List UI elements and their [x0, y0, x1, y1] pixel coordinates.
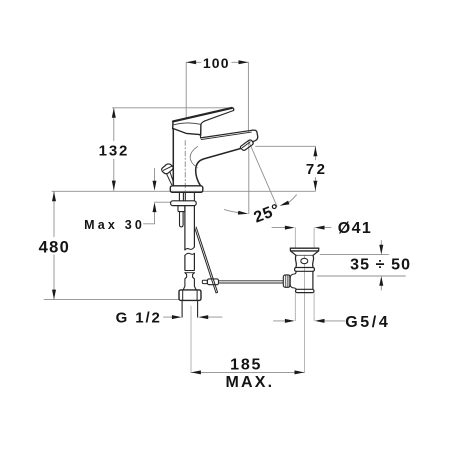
svg-text:100: 100: [203, 55, 230, 71]
faucet spout end face: [252, 130, 257, 142]
drain ball joint nut: [283, 275, 290, 287]
dimension G 1/2 arrows: [172, 315, 208, 319]
dimension G5/4 arrows: [285, 319, 325, 323]
svg-text:72: 72: [306, 161, 328, 178]
dimension 35-50 arrows: [379, 245, 383, 286]
ball joint facets: [285, 276, 289, 287]
svg-text:Ø41: Ø41: [338, 220, 372, 237]
shank o-ring grooves: [185, 271, 195, 273]
shank break symbol: [185, 247, 195, 256]
svg-text:G 1/2: G 1/2: [116, 309, 162, 326]
drain overflow hole: [301, 258, 308, 263]
dimension 72 extension line: [256, 145, 316, 147]
ball joint neck: [290, 272, 296, 289]
dimension Max 30 lower arrow: [154, 211, 156, 224]
dimension D41 extension lines: [295, 228, 314, 248]
dimension 132 extension line: [113, 107, 234, 109]
faucet lever underside: [201, 111, 234, 125]
svg-text:25°: 25°: [252, 201, 283, 226]
dimension 185 MAX arrows: [191, 370, 304, 374]
horizontal linkage rod: [219, 281, 284, 283]
lift rod above washer: [179, 193, 183, 201]
drain coupling ring: [295, 268, 315, 272]
drain lower body: [296, 271, 313, 289]
hex nut facets: [183, 290, 197, 301]
svg-text:480: 480: [39, 238, 70, 256]
svg-text:G5/4: G5/4: [345, 314, 390, 331]
faucet pull-rod stem: [167, 173, 174, 185]
dimension 100 extension lines: [186, 62, 248, 131]
faucet handle block: [173, 121, 201, 135]
faucet aerator inner line: [242, 142, 250, 148]
supply shank upper part: [185, 206, 195, 250]
dimension 72 arrows: [313, 147, 317, 191]
dimension G5/4 line: [274, 320, 346, 322]
supply hex nut G1/2: [179, 290, 201, 301]
drain bottom cap: [296, 289, 315, 292]
dimension 132 arrows: [112, 108, 116, 190]
angle 25 right arc arrow: [288, 195, 296, 203]
linkage pin: [202, 280, 207, 283]
mounting washer: [171, 201, 197, 206]
angle 25 vertical ray: [248, 142, 250, 214]
drain flange sides: [290, 248, 318, 255]
faucet centre line below deck: [190, 306, 192, 372]
angle 25 tilted ray: [249, 142, 277, 206]
faucet spout top edge inner line: [201, 132, 251, 140]
supply shank lower part: [185, 253, 195, 270]
faucet body sculpt curve: [190, 146, 197, 167]
dimension 185 MAX line: [191, 371, 304, 373]
dimension 480 arrows: [52, 192, 56, 300]
drain flange top: [290, 248, 318, 251]
shank neck: [183, 273, 196, 290]
faucet spout underside: [196, 148, 241, 185]
svg-text:Max 30: Max 30: [84, 218, 145, 232]
svg-text:35 ÷ 50: 35 ÷ 50: [350, 256, 411, 273]
supply shank above washer: [185, 193, 194, 201]
dimension Max 30 leader: [144, 223, 155, 225]
faucet body centre line: [184, 141, 186, 191]
faucet pull-rod knob inner line: [163, 166, 172, 170]
drain upper body: [295, 255, 313, 267]
faucet handle crease: [173, 123, 200, 125]
dimension 35-50 extension lines: [317, 255, 405, 276]
dimension Max 30 upper arrow: [154, 169, 156, 182]
angle 25 left arc arrow: [224, 210, 238, 213]
svg-text:185: 185: [230, 357, 262, 374]
dimension 100 arrows: [186, 60, 248, 64]
dimension D41 line: [272, 227, 331, 229]
deck underside line: [155, 201, 171, 203]
dimension 100 line: [186, 61, 248, 63]
faucet lever tip: [232, 108, 234, 111]
dimension 35-50 line: [380, 241, 382, 291]
deck line: [52, 190, 315, 192]
pop-up rod diagonal: [195, 227, 218, 293]
faucet base plate: [170, 186, 203, 193]
hose end reference line: [44, 299, 179, 301]
faucet body left edge: [172, 128, 175, 185]
lift rod lower end: [180, 212, 184, 227]
dimension G 1/2 line: [164, 316, 223, 318]
drain centre line: [303, 256, 305, 373]
dimension G5/4 extension lines: [295, 293, 314, 321]
lift rod block: [178, 206, 185, 212]
dimension 480 line: [53, 191, 55, 299]
threaded pipe G1/2: [182, 300, 198, 317]
faucet pull-rod knob: [162, 164, 174, 174]
dimension D41 arrows: [285, 226, 325, 230]
faucet aerator: [240, 140, 253, 150]
faucet spout top edge: [200, 130, 253, 138]
svg-text:132: 132: [99, 142, 129, 159]
faucet lever top edge: [173, 108, 232, 122]
dimension 72 line: [314, 146, 316, 190]
linkage clamp: [207, 279, 218, 285]
svg-text:MAX.: MAX.: [225, 374, 274, 391]
drain flange bottom edge: [296, 254, 313, 256]
dimension 132 line: [113, 108, 115, 191]
